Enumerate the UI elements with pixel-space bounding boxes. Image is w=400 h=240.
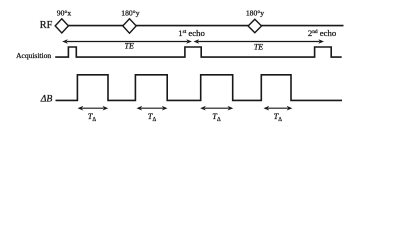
svg-text:TE: TE	[254, 43, 263, 52]
svg-text:180°y: 180°y	[121, 8, 139, 17]
svg-text:180°y: 180°y	[246, 8, 264, 17]
svg-text:ΔB: ΔB	[40, 94, 53, 105]
svg-text:RF: RF	[40, 20, 53, 31]
svg-text:2nd echo: 2nd echo	[308, 28, 337, 38]
svg-text:Acquisition: Acquisition	[16, 51, 51, 60]
svg-text:90°x: 90°x	[57, 8, 72, 17]
svg-text:1st echo: 1st echo	[178, 28, 205, 38]
svg-text:TE: TE	[125, 42, 134, 51]
